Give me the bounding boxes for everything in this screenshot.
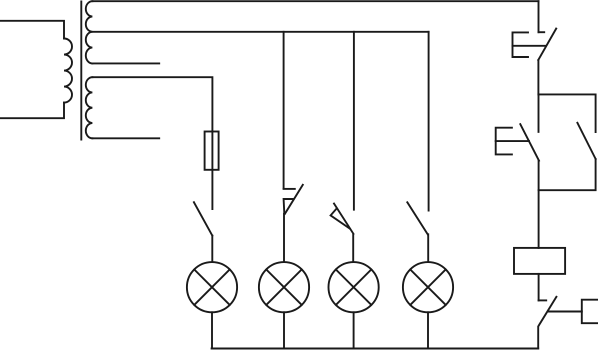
wire: S3 to lamp H3 [352,235,354,262]
switch S6 upper terminal [538,94,540,131]
transformer T1 primary winding [64,39,72,103]
wire: S1 to lamp H1 [211,236,213,262]
wire: S2 to lamp H2 [283,214,285,262]
switch S6 blade [520,124,539,161]
wire: branch 4 drop [428,32,430,211]
wire: lamp H1 to bottom bus [211,312,213,348]
wire: lamp H2 to bottom bus [283,312,285,348]
switch S5 blade [538,29,556,60]
switch S7 blade [577,123,595,159]
wire: S8 to bottom bus [537,327,539,349]
switch S8 fixed contact tick [539,299,547,301]
wire: relay to S8 [538,274,540,301]
wire: S4 to lamp H4 [427,234,429,262]
switch S5 fixed contact tick [539,31,545,33]
wire: top bus from secondary [92,0,538,2]
switch S6 manual actuator bracket [496,128,512,155]
lamp H3 [329,262,379,312]
wire: lamp H4 to bottom bus [427,312,429,348]
wire: primary bottom lead [0,103,64,119]
wire: right feeder drop [538,1,540,32]
transformer T1 core [80,2,82,140]
wire: lower secondary stub [92,137,159,139]
switch S5 manual actuator bracket [513,32,529,57]
wire: S6 to relay [538,161,540,248]
wire: lower secondary top lead [92,77,212,209]
lamp H2 [259,262,309,312]
wire: S7 to reconnect [539,159,596,190]
transformer T1 secondary winding upper [86,1,93,63]
switch S4 blade [407,202,427,234]
switch S2 fixed contact [284,188,295,190]
lamp H4 [403,262,453,312]
relay coil K1 [514,248,565,274]
switch S2 blade [285,185,303,214]
transformer T1 secondary winding lower [86,77,93,138]
switch S3 actuator triangle [331,208,350,228]
wire: secondary centre-tap bus [92,31,428,33]
wire: primary top lead [0,21,64,39]
wire: S5 to junction [537,60,539,94]
switch S2 actuator triangle [284,199,294,213]
switch S8 blade [539,297,557,326]
wire: bottom bus [212,348,539,350]
wire: branch 3 drop [353,32,355,210]
fuse F1 [205,132,219,170]
switch S1 blade [194,202,212,235]
switch S3 blade [334,204,353,234]
wire: upper secondary stub [92,62,159,64]
wire: junction to right parallel branch [538,94,595,132]
switch S8 manual actuator bracket [582,300,598,324]
lamp H1 [187,262,237,312]
wire: lamp H3 to bottom bus [353,312,355,348]
wire: branch 2 drop [283,32,285,189]
